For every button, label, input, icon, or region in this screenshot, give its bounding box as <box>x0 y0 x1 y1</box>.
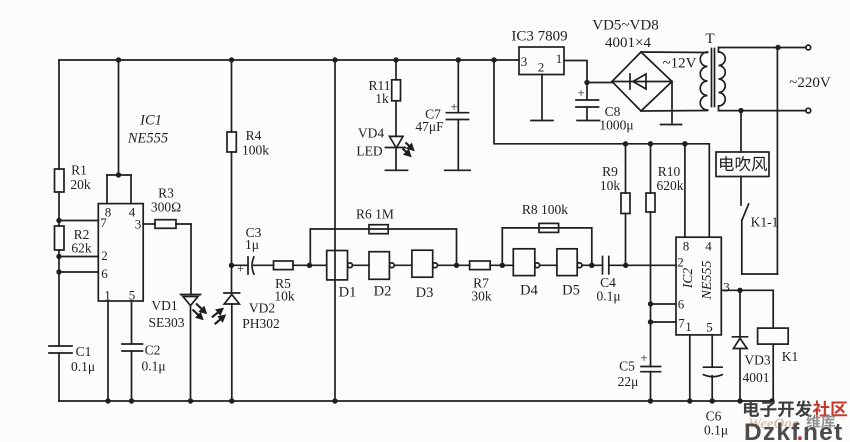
svg-text:4: 4 <box>705 239 712 254</box>
svg-text:K1: K1 <box>782 349 799 364</box>
svg-text:D3: D3 <box>416 285 434 301</box>
svg-text:VD1: VD1 <box>151 298 177 313</box>
svg-text:VD5~VD8: VD5~VD8 <box>592 18 658 34</box>
svg-text:R8 100k: R8 100k <box>522 202 568 217</box>
svg-text:100k: 100k <box>242 143 269 158</box>
svg-text:0.1μ: 0.1μ <box>596 289 620 304</box>
svg-text:1: 1 <box>685 319 692 334</box>
svg-text:0.1μ: 0.1μ <box>141 359 165 374</box>
svg-text:NE555: NE555 <box>127 131 168 147</box>
svg-text:R3: R3 <box>158 186 174 201</box>
svg-text:IC3 7809: IC3 7809 <box>511 29 567 45</box>
svg-text:VD4: VD4 <box>358 126 384 141</box>
svg-text:5: 5 <box>706 320 713 335</box>
svg-text:5: 5 <box>129 288 136 303</box>
svg-text:R1: R1 <box>71 163 87 178</box>
svg-text:K1-1: K1-1 <box>751 215 779 230</box>
svg-text:D1: D1 <box>339 285 357 301</box>
svg-text:10k: 10k <box>600 178 621 193</box>
svg-text:~220V: ~220V <box>789 75 831 91</box>
svg-text:+: + <box>640 350 647 365</box>
svg-text:D5: D5 <box>562 283 580 299</box>
svg-text:7: 7 <box>100 215 107 230</box>
svg-text:7: 7 <box>678 316 685 331</box>
svg-text:PH302: PH302 <box>242 316 280 331</box>
svg-text:C2: C2 <box>145 343 161 358</box>
svg-text:LED: LED <box>356 144 382 159</box>
svg-text:1: 1 <box>104 288 111 303</box>
svg-text:22μ: 22μ <box>618 374 639 389</box>
svg-text:T: T <box>705 31 714 47</box>
svg-text:3: 3 <box>135 217 142 232</box>
svg-text:C6: C6 <box>706 409 722 424</box>
svg-text:620k: 620k <box>657 178 684 193</box>
svg-text:R4: R4 <box>246 128 262 143</box>
svg-text:62k: 62k <box>71 241 92 256</box>
svg-text:4001×4: 4001×4 <box>605 35 651 51</box>
svg-text:VD2: VD2 <box>249 301 275 316</box>
svg-text:1: 1 <box>556 51 563 66</box>
svg-text:2: 2 <box>101 248 108 263</box>
svg-text:R10: R10 <box>658 164 681 179</box>
svg-text:D4: D4 <box>520 283 538 299</box>
svg-text:IC2: IC2 <box>680 268 695 290</box>
svg-text:0.1μ: 0.1μ <box>71 359 95 374</box>
svg-text:2: 2 <box>538 60 545 75</box>
svg-text:C5: C5 <box>619 359 635 374</box>
svg-text:8: 8 <box>683 239 690 254</box>
svg-text:300Ω: 300Ω <box>151 200 181 215</box>
svg-text:SE303: SE303 <box>148 315 184 330</box>
svg-text:20k: 20k <box>70 177 91 192</box>
svg-text:30k: 30k <box>471 289 492 304</box>
svg-text:2: 2 <box>677 255 684 270</box>
svg-text:10k: 10k <box>274 289 295 304</box>
svg-text:0.1μ: 0.1μ <box>704 423 728 438</box>
svg-text:3: 3 <box>723 280 730 295</box>
svg-text:C1: C1 <box>76 344 92 359</box>
svg-text:1000μ: 1000μ <box>599 118 633 133</box>
svg-text:1μ: 1μ <box>245 237 259 252</box>
svg-text:R9: R9 <box>602 164 618 179</box>
svg-text:6: 6 <box>101 266 108 281</box>
svg-text:Dzkf: Dzkf <box>744 419 801 442</box>
svg-text:+: + <box>450 99 457 114</box>
svg-text:VD3: VD3 <box>744 353 770 368</box>
svg-text:IC1: IC1 <box>139 113 162 129</box>
svg-text:1k: 1k <box>375 91 389 106</box>
svg-text:NE555: NE555 <box>700 261 715 301</box>
svg-text:~12V: ~12V <box>663 56 697 72</box>
svg-text:net: net <box>803 419 843 442</box>
svg-text:+: + <box>237 261 244 276</box>
svg-text:6: 6 <box>678 297 685 312</box>
svg-text:D2: D2 <box>374 284 392 300</box>
svg-text:R6 1M: R6 1M <box>356 207 394 222</box>
svg-text:47μF: 47μF <box>415 119 444 134</box>
svg-text:3: 3 <box>521 54 528 69</box>
svg-text:4001: 4001 <box>743 370 770 385</box>
svg-text:+: + <box>577 85 584 100</box>
